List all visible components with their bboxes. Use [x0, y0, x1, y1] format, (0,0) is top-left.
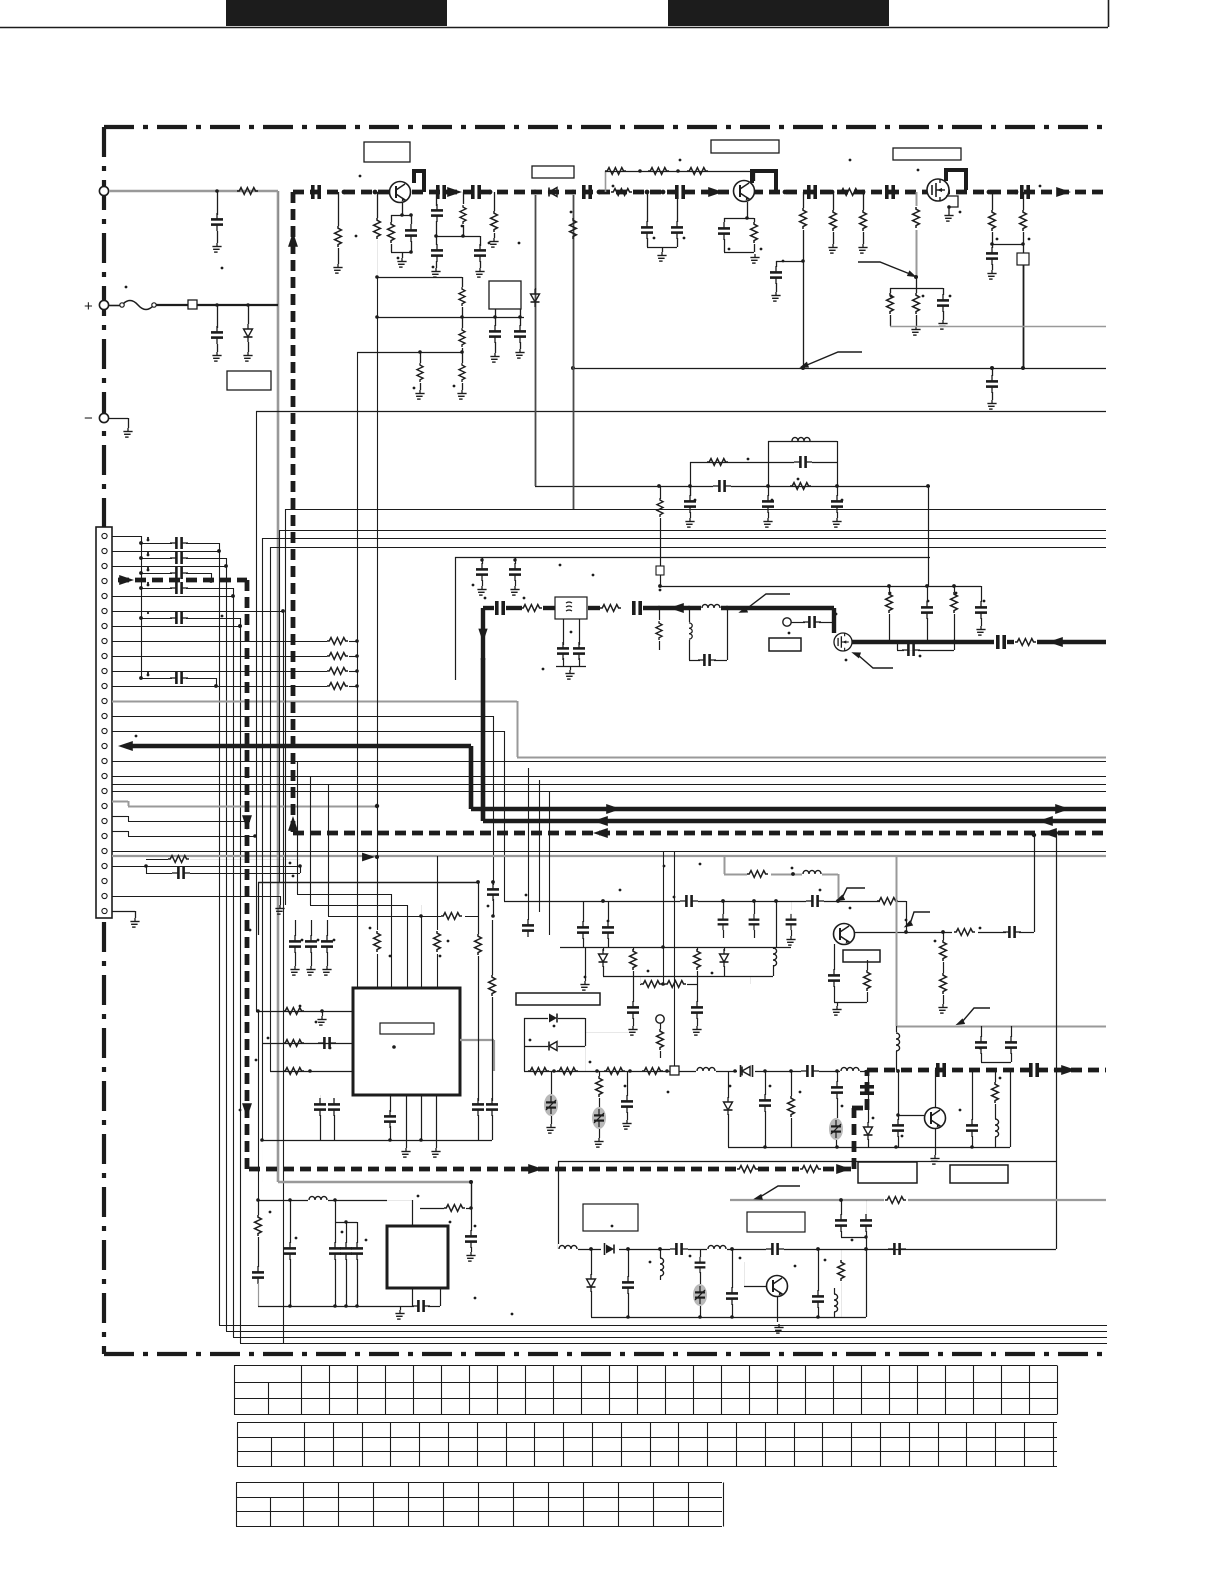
resistor R-feed a	[371, 930, 383, 954]
connector J1 pins	[102, 533, 107, 913]
resistor R13	[800, 208, 807, 229]
capacitor C79 pair b	[866, 1200, 868, 1215]
test point TP2	[656, 1015, 664, 1023]
wire pin6 run	[112, 611, 283, 613]
reference dots sprinkle	[147, 539, 150, 542]
resistor R9c divider	[462, 352, 464, 363]
capacitor C bypass e	[139, 616, 143, 620]
wire osc row y874 (gray)	[724, 874, 838, 876]
resistor R33 chain	[641, 981, 662, 988]
capacitor C56 U1 bottom	[384, 1110, 396, 1128]
wire osc jog x906	[897, 901, 906, 903]
label box mixer	[769, 638, 801, 651]
ground FL1	[565, 670, 574, 679]
bus arrow a	[447, 187, 462, 197]
ground tank left	[585, 947, 587, 981]
wire osc feed x724	[724, 857, 726, 874]
wire row y856 (gray)	[112, 855, 1106, 857]
leader arrow detector line	[807, 352, 862, 365]
capacitor C bypass b	[139, 556, 143, 560]
wire y352 link	[357, 352, 462, 354]
wire drop x528	[528, 768, 530, 920]
resistor R31 tank	[633, 947, 635, 950]
capacitor C38 tank	[608, 901, 610, 922]
inductor L12 osc2	[660, 1249, 662, 1258]
wire bottom run A	[219, 1325, 1107, 1327]
wire y244 link	[992, 244, 1023, 246]
IF bus segment e	[643, 606, 834, 610]
test point TP1	[783, 618, 791, 626]
inductor L3 IF shunt	[689, 608, 691, 622]
wire IC feed step b	[310, 905, 407, 907]
wire row y701 (gray)	[112, 701, 517, 703]
capacitor C40 tank c	[754, 901, 756, 914]
wire x803 drop	[803, 192, 805, 208]
inductor L2 inline IF	[701, 604, 721, 612]
capacitor C44 out	[1003, 926, 1021, 938]
wire ladder branch x837	[837, 441, 839, 496]
capacitor C16	[776, 261, 803, 263]
leader arrow mixer g2	[858, 655, 893, 668]
wire VCO feed x660	[660, 486, 662, 499]
resistor R35 out	[952, 926, 978, 938]
ground C10b	[431, 268, 440, 277]
capacitor C50 IC top a	[295, 920, 297, 936]
label box Q3 designator	[893, 148, 961, 160]
ground AGC a	[911, 326, 920, 335]
wire pin8 run with resistor	[112, 641, 327, 643]
audio transistor Q6	[925, 1108, 946, 1129]
IF bus corner down	[832, 608, 836, 633]
ground C16	[771, 292, 780, 301]
ground R15	[858, 244, 867, 253]
capacitor C19b series ladder	[713, 481, 731, 491]
transistor Q3 (FET)	[927, 179, 949, 201]
resistor R10 riser	[570, 218, 577, 239]
IC U2 body	[387, 1226, 448, 1288]
capacitor C60 series det	[801, 1066, 819, 1076]
wire row y784	[112, 784, 1106, 786]
label box audio a	[858, 1162, 917, 1183]
resistor R37 bias	[943, 932, 945, 940]
wire drop B	[226, 566, 228, 1331]
label box ceramic filter	[516, 993, 600, 1005]
wire pin y836 stub	[112, 831, 128, 833]
node IF out	[952, 640, 956, 644]
wire U1 pin row 1	[256, 1011, 353, 1013]
wire riser x493	[493, 716, 495, 882]
bus capacitor series x867	[860, 1087, 874, 1093]
capacitor C69 cluster b	[346, 1222, 348, 1243]
svg-text:−: −	[84, 410, 93, 427]
capacitor C64 audio	[972, 1070, 974, 1120]
antenna terminal	[99, 186, 108, 195]
wire bottom run C	[233, 1337, 1107, 1339]
resistor R23b x660	[657, 498, 663, 517]
wire row y731	[112, 731, 504, 733]
capacitor C41b tank	[791, 901, 793, 910]
connector J1 body	[96, 527, 112, 918]
wire riser x297	[297, 761, 299, 894]
wire pin2 run	[112, 551, 219, 553]
wire U1 bottom rail	[262, 1140, 492, 1142]
ground C27	[976, 626, 985, 635]
capacitor C14 shunt	[520, 317, 522, 326]
wire tank row y976	[603, 976, 773, 978]
resistor R29 osc	[747, 868, 771, 880]
wire row y547	[270, 547, 1106, 549]
IF bus segment c	[543, 606, 555, 610]
capacitor C58 U1 bottom pair	[328, 1098, 340, 1116]
capacitor C15 pair a	[647, 192, 649, 222]
IF bus segment a	[483, 606, 494, 610]
wire row y486 ladder	[535, 486, 930, 488]
bus inline resistor R2	[839, 189, 860, 196]
connector mark x660	[656, 566, 664, 575]
IF bus vertical x483	[481, 608, 485, 660]
ground pin bottom	[275, 905, 284, 914]
wire pin11 run with resistor	[112, 686, 327, 688]
diode D6 loop	[524, 1046, 548, 1048]
capacitor C25 shield	[515, 557, 517, 564]
bus junction dots	[342, 190, 347, 195]
capacitor C75 osc2	[732, 1249, 734, 1288]
wire antenna vertical (gray)	[277, 191, 280, 1182]
node bias chain	[638, 169, 642, 173]
capacitor C bypass a	[139, 541, 143, 545]
capacitor C19 on detector line	[992, 368, 994, 376]
wire y236 link	[436, 236, 480, 238]
resistor R5 bias	[687, 168, 708, 175]
resistor R12 Q2 base	[754, 218, 756, 222]
wire bottom row y1200	[258, 1200, 387, 1202]
wire bottom run B	[226, 1331, 1107, 1333]
capacitor C46 det	[981, 1026, 983, 1037]
wire U1 left drop x258	[258, 1011, 260, 1200]
wire minus to ground	[109, 418, 128, 420]
node dot antenna	[215, 189, 219, 193]
board outline dash-dot border left	[102, 127, 106, 1354]
varactor D4	[724, 947, 726, 951]
resistor R9a divider	[462, 277, 464, 287]
parts table 3	[236, 1483, 724, 1527]
parts table 1	[234, 1366, 1058, 1415]
wire drop C	[233, 596, 235, 1337]
resistor R47 det shunt	[599, 1071, 601, 1076]
ground C43	[692, 1026, 701, 1035]
title strip right edge	[1108, 0, 1110, 27]
inductor L1 ladder	[792, 437, 810, 441]
node U1 bottom rail	[388, 1138, 392, 1142]
transistor Q1	[390, 182, 411, 203]
wire arrow row y857	[362, 853, 375, 862]
wire pin9 run with resistor	[112, 656, 327, 658]
resistor R19	[992, 192, 994, 210]
capacitor C65 supply	[471, 1208, 473, 1231]
capacitor C33 branch	[954, 642, 956, 650]
bus capacitor series y1070	[938, 1063, 944, 1077]
resistor R46b det	[642, 1068, 663, 1075]
label box regulator	[532, 166, 574, 178]
wire riser x517 (gray)	[517, 701, 519, 757]
wire riser x258b	[258, 882, 260, 935]
IF out bus	[852, 640, 994, 644]
shield box oscillator top	[455, 557, 930, 559]
connector mark det	[670, 1066, 679, 1075]
ground C13	[490, 353, 499, 362]
resistor R6 to ground	[338, 192, 340, 226]
wire y277 link	[377, 277, 462, 279]
capacitor C34 series osc	[680, 896, 698, 906]
wire osc drop x838 (gray)	[838, 874, 840, 901]
wire IC feed v5	[421, 905, 423, 988]
resistor R16 AGC	[890, 288, 892, 293]
diode D8 squelch	[728, 1071, 730, 1098]
capacitor C24 shield	[482, 557, 484, 564]
resistor R10a	[463, 192, 465, 204]
resistor R32 tank	[697, 947, 699, 950]
capacitor C74 osc2	[700, 1249, 702, 1257]
wire IC feed v2	[377, 277, 379, 988]
resistor R38 synth inline	[441, 910, 465, 922]
resistor R24	[954, 586, 956, 592]
capacitor C72 osc2	[628, 1249, 630, 1277]
wire drop A	[219, 551, 221, 1325]
capacitor C77 osc2	[818, 1249, 820, 1291]
wire row y791	[112, 791, 1106, 793]
resistor R41 U1	[283, 1068, 304, 1075]
title bar left (redacted heading)	[226, 0, 447, 26]
wire AGC node	[890, 288, 943, 290]
wire row y809 bold	[471, 807, 1106, 812]
ground C24	[477, 586, 486, 595]
svg-text:+: +	[84, 298, 93, 315]
wire Q1 collector jog	[414, 171, 424, 192]
diode D2 vertical	[535, 288, 537, 290]
inductor L7 det	[696, 1066, 716, 1076]
wire drop D	[240, 626, 242, 1343]
wire TP1	[791, 622, 805, 624]
sub-board outline left	[558, 1161, 560, 1249]
wire ladder branch x768	[768, 441, 770, 496]
label box Q5 designator	[843, 950, 880, 962]
capacitor C78 pair a	[841, 1200, 843, 1215]
board outline dash-dot border top	[104, 125, 1106, 129]
capacitor C bypass d	[139, 586, 143, 590]
diode D7 det	[737, 1064, 755, 1078]
wire Q6 emitter	[935, 1129, 937, 1155]
capacitor C67 bottom	[290, 1200, 292, 1243]
node y1200	[256, 1198, 260, 1202]
wire U2 bottom	[412, 1288, 414, 1306]
wire pin10 run with resistor	[112, 671, 327, 673]
ground protection diode	[243, 352, 252, 361]
bus capacitor series y1070 b	[1031, 1063, 1037, 1077]
bus dashed left vertical	[291, 192, 296, 833]
capacitor C35 series osc	[806, 896, 824, 906]
shield box oscillator left	[455, 557, 457, 680]
resistor R4 bias	[648, 168, 669, 175]
IF bus segment b	[506, 606, 522, 610]
resistor R25 inline IF	[521, 605, 542, 612]
wire Y1 down	[1023, 265, 1025, 368]
resistor R antenna	[237, 188, 258, 195]
resistor R34 TP2	[660, 1023, 662, 1029]
wire row y716	[112, 716, 493, 718]
bus arrow up x293 top	[288, 232, 298, 247]
ground C22	[763, 518, 772, 527]
ground Q6	[930, 1155, 939, 1164]
wire osc row y586	[659, 586, 981, 588]
parts table 2	[237, 1423, 1057, 1467]
trimmer RV1	[551, 1071, 553, 1094]
label box sub designator	[583, 1204, 638, 1231]
IF bus capacitor C28	[497, 601, 503, 615]
wire osc2 main y1249	[560, 1249, 1056, 1251]
resistor R16a inline gray	[910, 206, 922, 230]
wire Q3 drain jog	[946, 170, 966, 190]
wire riser x256 to U1	[256, 411, 258, 1011]
wire drop E	[283, 611, 285, 1343]
ground C50	[290, 966, 299, 975]
capacitor C bypass f	[139, 676, 143, 680]
resistor R14	[833, 192, 835, 210]
capacitor C57 U1 bottom pair	[320, 1095, 322, 1099]
wire det caps join	[981, 1062, 1011, 1064]
capacitor C48 synth	[493, 882, 495, 885]
IF bus arrow left	[669, 603, 684, 613]
ground U1 a	[406, 1140, 408, 1148]
transistor Q7 osc2	[767, 1276, 788, 1297]
capacitor C62 squelch	[837, 1071, 839, 1082]
capacitor C61 squelch	[765, 1071, 767, 1095]
wire Q2 bias chain riser	[605, 171, 607, 192]
wire antenna feed (gray)	[109, 190, 278, 193]
resistor R40 U1	[283, 1040, 304, 1047]
wire row y326 (gray)	[890, 326, 1106, 328]
wire drop x517b	[0, 0, 2, 2]
wire ladder row y462	[690, 462, 768, 464]
ground RV2	[594, 1138, 603, 1147]
wire row y530	[279, 530, 1106, 532]
inductor L4 osc	[802, 869, 822, 879]
node y901	[601, 899, 605, 903]
resistor R9d shunt	[420, 352, 422, 363]
wire row y746 bold to connector	[131, 744, 471, 749]
capacitor C47 det	[1011, 1026, 1013, 1037]
ground R37	[938, 1004, 947, 1013]
capacitor C23 ladder shunt	[831, 495, 843, 513]
node x1056 on bus	[1054, 1068, 1058, 1072]
wire Q6 base	[898, 1115, 924, 1117]
capacitor C70 cluster c	[357, 1222, 359, 1243]
capacitor C59 det	[627, 1071, 629, 1096]
wire IC feed step a	[297, 894, 391, 896]
capacitor C71 series bottom	[412, 1306, 414, 1308]
wire U1 bottom pins	[390, 1095, 392, 1112]
wire Q3 source loop	[946, 196, 958, 212]
capacitor C15c Q2	[724, 218, 726, 222]
resistor R7 Q1 base	[391, 215, 393, 222]
wire Q2 collector jog	[752, 171, 776, 191]
resistor R22 inline ladder	[790, 483, 811, 490]
ferrite bead FB1	[188, 300, 197, 309]
varactor D3	[603, 947, 605, 951]
node U1 pin3	[308, 1069, 312, 1073]
wire C78 join	[841, 1237, 866, 1239]
bus arrow right y1169	[528, 1164, 543, 1174]
wire row y821 bold	[483, 819, 1106, 824]
wire Q7 base	[744, 1286, 766, 1288]
fuse F1	[109, 305, 122, 307]
wire Q2 base drop	[747, 202, 749, 218]
capacitor C43 tune	[697, 999, 699, 1002]
wire Q3 gate feed (gray)	[916, 192, 918, 277]
inductor L5 tank	[773, 947, 775, 949]
ground C42	[628, 1026, 637, 1035]
capacitor C45 feedback	[834, 944, 836, 970]
capacitor C bypass c	[139, 571, 143, 575]
transistor Q2	[734, 181, 755, 202]
resistor R10b	[494, 192, 496, 211]
resistor R44 det	[528, 1068, 549, 1075]
wire row y851	[112, 851, 1106, 853]
wire ladder right drop	[928, 486, 930, 586]
capacitor C9 Q1	[411, 215, 413, 224]
ground C19	[987, 400, 996, 409]
bus series capacitor C6	[809, 185, 815, 199]
ground connector shell	[112, 911, 135, 913]
capacitor C73 series osc2	[670, 1244, 688, 1254]
resistor R48 squelch	[791, 1071, 793, 1096]
capacitor C55	[486, 1098, 498, 1116]
resistor R49 audio	[995, 1070, 997, 1082]
wire riser x279	[279, 530, 281, 894]
node audio rail	[763, 1145, 767, 1149]
wire bottom rail y1306	[258, 1306, 412, 1308]
capacitor C antenna	[217, 191, 219, 215]
wire ladder row y441	[768, 441, 837, 443]
node pin runs	[281, 609, 285, 613]
ground RV1	[546, 1124, 555, 1133]
wire pin bottom run	[112, 896, 280, 898]
node det y1071	[552, 1069, 556, 1073]
ground R9c	[457, 390, 466, 399]
wire row y411	[256, 411, 1106, 413]
wire drop x549	[549, 791, 551, 935]
wire supply bottom drop	[471, 1182, 473, 1208]
node inside U1	[392, 1045, 396, 1049]
ground AGC b	[938, 320, 947, 329]
ground C23	[832, 518, 841, 527]
resistor R36 feedback	[867, 960, 869, 970]
title strip rule	[0, 27, 1108, 29]
capacitor C39 tank b	[723, 901, 725, 914]
board outline dash-dot border bottom	[104, 1352, 1106, 1356]
resistor R-feed b	[431, 930, 443, 954]
ground R9d	[415, 390, 424, 399]
trimmer RV4 osc2	[693, 1284, 707, 1306]
wire plus supply	[156, 304, 278, 306]
inductor L13 osc2	[707, 1244, 727, 1254]
capacitor C68 cluster a	[335, 1200, 337, 1243]
diode D10 osc2	[601, 1242, 619, 1256]
bus arrow down x483	[478, 629, 487, 643]
capacitor C17 AGC	[943, 288, 945, 295]
resistor R9b divider	[462, 317, 464, 328]
wire osc2 right vertical	[866, 1237, 868, 1317]
resistor R28 inline thick	[1015, 639, 1036, 646]
